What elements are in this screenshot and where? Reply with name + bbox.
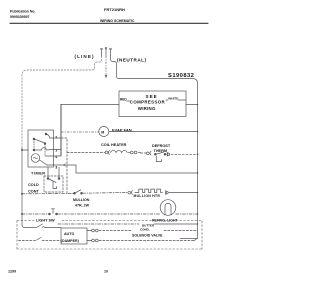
resistor mullion heater (square bumps) (135, 189, 163, 192)
svg-text:COIL HEATER: COIL HEATER (101, 143, 127, 147)
svg-text:LIGHT SW: LIGHT SW (36, 219, 55, 223)
svg-text:3: 3 (55, 166, 57, 170)
wire to neutral bus (169, 192, 198, 194)
wire to neutral bus (171, 153, 198, 155)
compressor box U1 (119, 91, 186, 117)
evap fan motor M1 (99, 127, 109, 137)
resistor coil heater (111, 151, 128, 153)
stubs from timer to cold control (47, 167, 49, 179)
node: vertical feeder from compressor rung to timer (60, 105, 62, 157)
timer motor (31, 154, 40, 163)
timer internal contacts (33, 133, 53, 156)
svg-text:COMPRESSOR: COMPRESSOR (130, 100, 166, 105)
svg-text:5995339597: 5995339597 (10, 15, 30, 19)
bottom solid segment to neutral bus (180, 238, 198, 240)
svg-text:DEFROST: DEFROST (152, 144, 171, 148)
evap fan feed wire (61, 131, 99, 133)
timer feed from line bus (22, 149, 28, 151)
connector (105, 151, 109, 155)
mullion heater rung wire (21, 190, 127, 195)
compressor neutral wire (WHITE) (186, 104, 198, 106)
door switch (74, 192, 76, 194)
header publication number text (10, 10, 36, 19)
butter conditioner rung (58, 223, 139, 225)
svg-text:THERM: THERM (154, 149, 168, 153)
connector (128, 191, 133, 195)
evap fan neutral wire (109, 131, 198, 133)
timer motor return wire to neutral (54, 165, 198, 173)
svg-text:WHITE: WHITE (168, 97, 178, 101)
svg-text:2: 2 (55, 135, 57, 139)
cold control CC1 (dashed box) (44, 176, 63, 192)
damper upper output wire (87, 230, 92, 232)
svg-text:RED: RED (120, 97, 127, 101)
right bus junction nodes (197, 104, 199, 225)
defrost thermostat (154, 152, 166, 162)
svg-text:TIMER: TIMER (31, 171, 46, 176)
svg-text:10: 10 (104, 270, 108, 274)
timer terminal labels (55, 135, 57, 169)
connector (165, 191, 168, 195)
svg-text:M: M (101, 130, 104, 134)
svg-text:EVAP FAN: EVAP FAN (112, 128, 132, 133)
svg-text:AUTO: AUTO (64, 232, 75, 236)
svg-text:1: 1 (55, 148, 57, 152)
svg-text:Publication No.: Publication No. (10, 10, 36, 14)
svg-text:(LINE): (LINE) (75, 54, 95, 59)
footer page number (8, 270, 108, 274)
cold control switch (47, 178, 60, 189)
terminal arrow connector (63, 164, 65, 166)
svg-text:SEE: SEE (146, 94, 158, 99)
svg-text:(DAMPER): (DAMPER) (61, 239, 80, 243)
fresh food compartment dashed enclosure (17, 221, 202, 250)
svg-text:1299: 1299 (8, 270, 16, 274)
svg-text:WIRING: WIRING (138, 106, 156, 111)
auto damper box (61, 228, 87, 244)
svg-text:MULLION: MULLION (73, 198, 90, 202)
svg-text:COLD: COLD (28, 183, 39, 187)
lamp to neutral wire (176, 213, 198, 215)
svg-text:S190832: S190832 (168, 73, 194, 79)
connector (146, 151, 151, 155)
svg-text:47R, 2W: 47R, 2W (75, 204, 90, 208)
connector (167, 152, 170, 156)
svg-text:CONT: CONT (28, 190, 39, 194)
svg-text:MULLION HTR: MULLION HTR (134, 194, 161, 198)
svg-text:SOLENOID VALVE: SOLENOID VALVE (132, 233, 163, 237)
defrost feeder (dashed) to cold control (61, 138, 67, 194)
header rule (10, 22, 208, 24)
refrigerator light rung (21, 209, 161, 215)
connector pair (129, 151, 141, 154)
neutral wire from plug to right bus (solid) (111, 56, 198, 239)
light switch (49, 213, 51, 215)
damper lower output / solenoid valve wire (19, 240, 36, 242)
damper switch (37, 224, 46, 228)
lamp refrigerator light (160, 200, 176, 216)
compressor dashed feed wire (RED) (61, 104, 119, 106)
svg-text:WIRING SCHEMATIC: WIRING SCHEMATIC (100, 19, 135, 23)
svg-text:COND.: COND. (140, 227, 150, 231)
ground symbol (105, 75, 108, 78)
line-side wire from plug to left bus (dash-dot) (22, 56, 102, 148)
header model number text (100, 7, 135, 23)
ground wire from plug center prong (105, 56, 107, 75)
coil heater rung wire (67, 152, 105, 154)
svg-text:(NEUTRAL): (NEUTRAL) (117, 57, 147, 62)
power plug prongs (101, 48, 112, 57)
svg-text:4: 4 (55, 155, 57, 159)
line bus corner into damper rung (22, 225, 36, 228)
timer terminal stubs (54, 137, 62, 139)
defrost timer box TM1 (28, 130, 54, 167)
svg-text:FRT21NRH: FRT21NRH (104, 7, 125, 12)
